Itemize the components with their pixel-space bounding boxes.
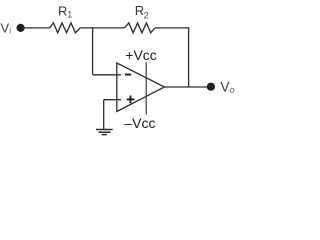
node Vi label [1,21,12,36]
op-amp inverting pin minus sign [125,74,131,76]
svg-text:V: V [220,79,230,95]
svg-text:V: V [1,21,10,36]
wire to inverting input [93,74,121,76]
svg-text:o: o [230,85,235,95]
wire down to ground [103,100,105,130]
wire non-inverting input [104,99,121,101]
node junction R1/R2 to inverting branch [92,28,94,75]
svg-text:R: R [58,3,67,18]
op-amp non-inverting pin plus sign [127,96,135,104]
wire R2 to feedback corner [155,27,189,29]
label R1 [58,3,72,19]
svg-text:+Vcc: +Vcc [125,47,157,63]
node Vo label [220,79,235,96]
resistor R2 [125,23,155,33]
wire R1 to R2 [80,27,124,29]
svg-text:2: 2 [144,10,149,21]
wire op-amp output [165,86,212,88]
svg-text:1: 1 [67,10,72,20]
svg-text:i: i [9,26,11,36]
input terminal node dot [17,24,25,32]
op-amp U1 [117,63,165,112]
output node dot [207,83,215,91]
label R2 [135,3,149,21]
ground [96,130,113,135]
Vcc supply rail [145,62,147,114]
wire Vi dot to R1 [21,27,50,29]
svg-text:–Vcc: –Vcc [124,115,155,131]
resistor R1 [50,23,81,33]
wire feedback down to output [188,27,190,87]
